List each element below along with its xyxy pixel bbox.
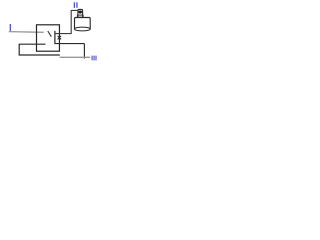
wire (hose III, gray, bottom run): [60, 56, 91, 58]
node III label: [92, 56, 96, 61]
background: [0, 0, 100, 75]
cap knob (filled): [78, 10, 82, 13]
wire (right vertical drop): [83, 44, 85, 59]
reservoir bottom rim (ellipse): [75, 27, 91, 31]
node I label: [9, 24, 11, 31]
hose II (valve bar to reservoir cap): [55, 10, 78, 34]
bracket (lower-left component outline): [19, 44, 60, 55]
valve bar (vertical seat): [54, 31, 56, 44]
valve box U1: [37, 25, 60, 51]
node II label: [74, 2, 77, 8]
reservoir cap: [78, 9, 83, 17]
valve closed-port cross: [58, 36, 62, 40]
reservoir tank body: [75, 18, 91, 30]
wire (valve outlet to right drop): [55, 43, 85, 45]
cap flange: [77, 15, 83, 17]
valve lever (diagonal inside box): [48, 31, 52, 37]
wire (hose I, gray, from left edge into valve box): [9, 31, 44, 34]
